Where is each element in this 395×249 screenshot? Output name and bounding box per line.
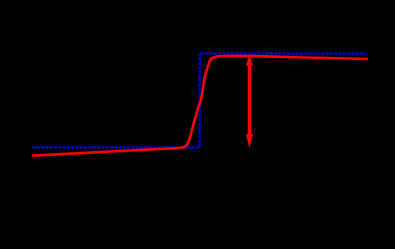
red double-headed arrow [246, 54, 253, 147]
blue dashed step function [33, 54, 367, 148]
red sigmoid curve [33, 56, 367, 156]
